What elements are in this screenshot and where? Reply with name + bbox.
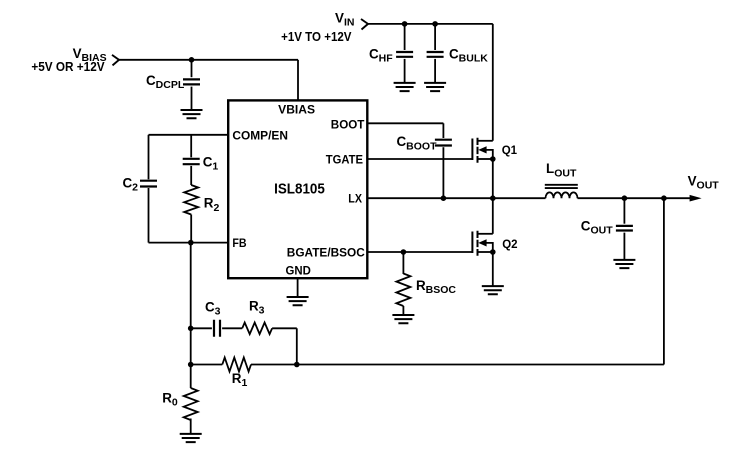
wire VIN rail [368,23,493,25]
ground CHF [394,83,416,91]
wire GND pin lead [297,278,299,296]
node VIN junction CHF [402,21,408,27]
resistor R0 [184,388,198,420]
wire Q2 source lead [492,252,494,286]
inductor LOUT core [545,185,578,188]
node VIN junction CBULK [432,21,438,27]
wire CHF bottom lead [404,59,406,82]
wire R1 left lead [191,364,223,366]
resistor RBSOC [396,274,410,307]
capacitor C1 [183,159,200,164]
wire CBULK bottom lead [434,59,436,82]
wire FB node drop [190,243,192,365]
wire R2 to FB [190,215,192,243]
capacitor CBOOT [435,140,452,146]
ground COUT [613,260,635,268]
wire VOUT feedback drop [663,198,665,364]
wire CBOOT bottom lead [442,147,444,198]
svg-text:ISL8105: ISL8105 [274,181,325,197]
ground GND pin [287,297,309,305]
resistor R2 [184,185,198,215]
wire C3 lead [191,327,212,329]
wire COUT bottom lead [623,233,625,260]
wire R1 to VOUT drop [251,364,664,366]
wire C2 top lead [148,135,150,180]
ground CBULK [424,83,446,91]
svg-text:+5V OR +12V: +5V OR +12V [31,59,104,74]
wire Q1 source to LX [492,159,494,198]
svg-text:BGATE/BSOC: BGATE/BSOC [287,245,365,259]
wire FB [149,242,229,244]
wire C3 to R3 [222,327,242,329]
wire RBSOC top lead [402,252,404,274]
capacitor C2 [140,181,157,187]
node VBIAS junction [189,57,195,63]
node LX CBOOT junction [441,195,447,201]
ground RBSOC [392,315,414,323]
transistor Q2 [472,231,495,256]
wire VBIAS to pin [297,60,299,101]
svg-text:+1V TO +12V: +1V TO +12V [281,29,352,44]
wire C1 to R2 [190,166,192,185]
svg-text:LX: LX [348,192,362,206]
wire VOUT rail [578,197,691,199]
capacitor CBULK [427,52,444,57]
wire COUT top lead [623,198,625,224]
capacitor C3 [214,320,220,337]
ground Q2 source [482,286,504,294]
resistor R3 [242,323,272,335]
wire R0 bottom lead [190,419,192,434]
op-amp U1 ISL8105 box [228,100,367,278]
svg-text:FB: FB [232,236,246,250]
node LX phase junction [490,195,496,201]
wire C1 top lead [190,135,192,158]
svg-text:VBIAS: VBIAS [278,103,315,117]
wire R0 top lead [190,365,192,389]
node R1 R3 junction [294,362,300,368]
svg-text:GND: GND [286,264,312,278]
svg-text:Q2: Q2 [502,239,517,251]
wire COMP/EN [149,134,229,136]
wire BOOT [367,122,443,124]
node BGATE junction [401,249,407,255]
wire RBSOC bottom lead [402,306,404,314]
node R0 junction [188,362,194,368]
transistor Q1 [472,138,495,163]
svg-text:COMP/EN: COMP/EN [232,128,288,142]
ground CDCPL [181,110,203,118]
ground R0 [180,434,202,442]
wire CBULK top lead [434,24,436,50]
wire R3 drop [296,328,298,364]
wire CBOOT top lead [442,123,444,138]
wire CDCPL top lead [191,60,193,77]
wire TGATE to Q1 gate [367,158,472,160]
node VBIAS input arrow [112,55,119,66]
svg-text:BOOT: BOOT [331,118,365,132]
wire LX [367,197,545,199]
wire VBIAS rail [119,59,298,61]
wire VIN to Q1 drain [492,24,494,141]
capacitor CHF [396,52,413,57]
wire CHF top lead [404,24,406,50]
node VIN input arrow [361,19,368,30]
wire BGATE to Q2 gate [367,251,472,253]
wire LX to Q2 drain [492,198,494,234]
svg-text:TGATE: TGATE [326,152,363,166]
resistor R1 [222,358,251,372]
wire R3 right lead [272,327,297,329]
node C3 branch junction [188,326,194,332]
capacitor CDCPL [183,79,200,84]
inductor LOUT coil [546,192,578,198]
wire C2 bottom lead [148,188,150,243]
node VOUT arrow [690,195,702,202]
node FB junction [188,240,194,246]
svg-text:Q1: Q1 [502,145,518,157]
wire CDCPL bottom lead [191,87,193,110]
node VOUT feedback junction [661,195,667,201]
node COUT junction [622,195,628,201]
capacitor COUT [616,226,633,231]
